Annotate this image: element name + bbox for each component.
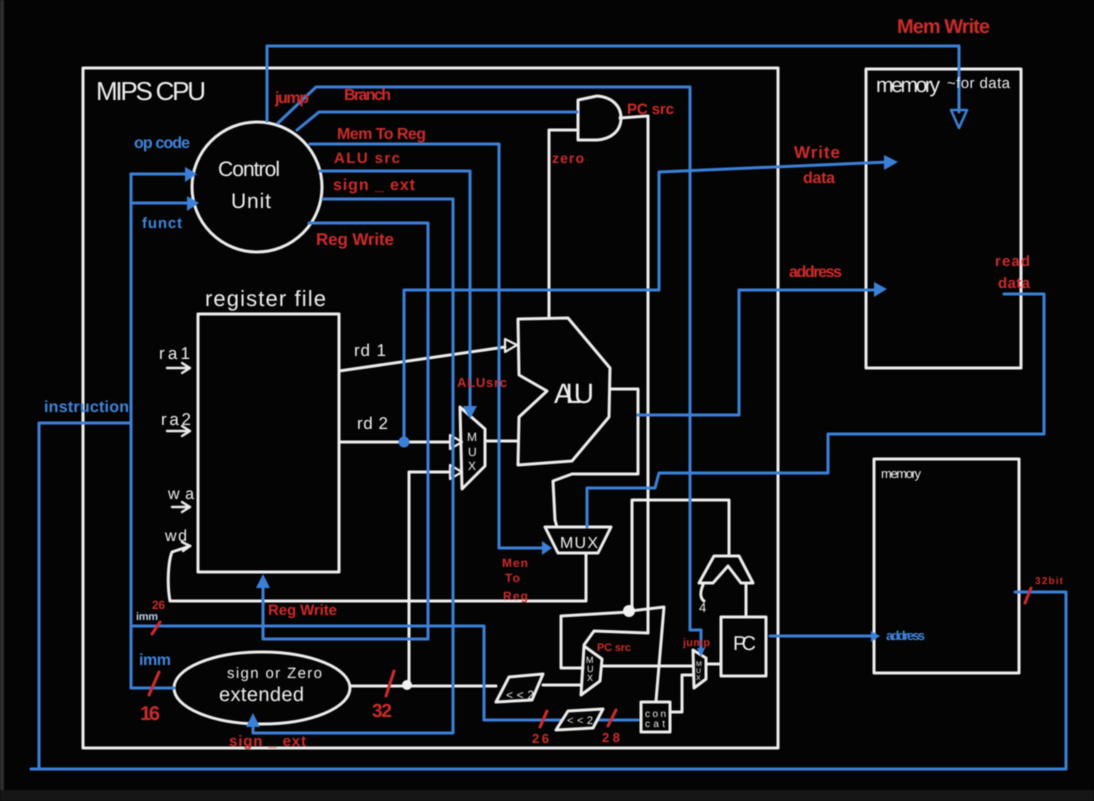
svg-text:address: address — [789, 264, 842, 281]
svg-text:16: 16 — [140, 703, 160, 725]
svg-text:op code: op code — [134, 135, 190, 152]
svg-text:<<2: <<2 — [567, 715, 593, 727]
svg-text:ra1: ra1 — [159, 344, 190, 363]
svg-text:address: address — [886, 628, 925, 643]
svg-text:ALU: ALU — [554, 378, 594, 409]
svg-text:imm: imm — [139, 652, 171, 669]
svg-text:rd 1: rd 1 — [354, 341, 386, 360]
svg-text:memory: memory — [881, 466, 922, 481]
svg-text:memory: memory — [876, 74, 941, 97]
svg-text:data: data — [998, 275, 1031, 292]
svg-text:4: 4 — [699, 600, 706, 615]
svg-text:M: M — [696, 661, 702, 668]
svg-text:~for data: ~for data — [947, 75, 1011, 92]
svg-text:rd 2: rd 2 — [357, 414, 388, 433]
svg-text:Unit: Unit — [231, 190, 271, 213]
svg-text:Reg: Reg — [503, 589, 528, 603]
svg-text:wd: wd — [164, 528, 187, 545]
svg-text:32bit: 32bit — [1035, 576, 1064, 587]
svg-text:sign _ ext: sign _ ext — [229, 733, 306, 750]
svg-text:ALU src: ALU src — [334, 150, 400, 167]
svg-text:U: U — [468, 445, 477, 459]
svg-text:26: 26 — [152, 598, 165, 612]
svg-text:instruction: instruction — [44, 399, 129, 416]
svg-text:extended: extended — [219, 684, 304, 706]
svg-text:funct: funct — [142, 215, 182, 232]
svg-text:data: data — [803, 170, 835, 187]
svg-text:zero: zero — [552, 150, 584, 166]
svg-text:Write: Write — [794, 143, 840, 162]
svg-text:Branch: Branch — [344, 87, 391, 104]
svg-text:jump: jump — [274, 90, 309, 107]
svg-text:read: read — [995, 253, 1030, 270]
svg-text:sign _ ext: sign _ ext — [333, 177, 416, 194]
svg-text:PC src: PC src — [627, 101, 674, 118]
svg-text:jump: jump — [682, 637, 710, 649]
svg-text:M: M — [467, 430, 477, 444]
svg-text:register file: register file — [205, 286, 326, 311]
svg-text:Mem To Reg: Mem To Reg — [337, 126, 426, 143]
svg-text:Control: Control — [218, 158, 280, 181]
svg-text:U: U — [696, 668, 701, 675]
svg-text:X: X — [587, 673, 593, 683]
svg-text:MUX: MUX — [560, 535, 598, 552]
svg-text:Men: Men — [502, 556, 528, 570]
svg-text:MIPS CPU: MIPS CPU — [96, 76, 206, 106]
svg-text:PC: PC — [733, 633, 756, 655]
svg-text:sign or Zero: sign or Zero — [227, 665, 322, 682]
svg-text:ra2: ra2 — [161, 410, 191, 429]
svg-text:X: X — [696, 675, 701, 682]
svg-text:Reg Write: Reg Write — [316, 230, 394, 249]
svg-text:<<2: <<2 — [506, 688, 534, 702]
svg-text:ALUsrc: ALUsrc — [457, 375, 507, 390]
svg-text:imm: imm — [136, 611, 158, 623]
svg-text:Reg Write: Reg Write — [268, 602, 337, 619]
svg-text:cat: cat — [645, 719, 665, 730]
svg-text:32: 32 — [372, 701, 392, 722]
svg-text:X: X — [468, 459, 476, 473]
svg-text:To: To — [505, 571, 520, 585]
svg-text:PC src: PC src — [597, 642, 631, 654]
svg-text:Mem Write: Mem Write — [897, 16, 990, 38]
